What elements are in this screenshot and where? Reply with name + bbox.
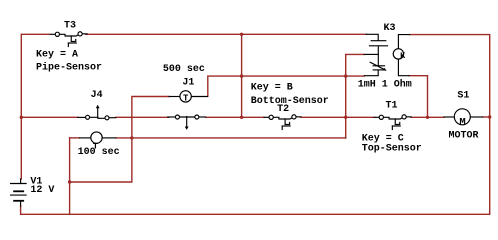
svg-text:Top-Sensor: Top-Sensor xyxy=(362,144,422,155)
svg-text:Key = A: Key = A xyxy=(36,50,78,61)
svg-text:Key = B: Key = B xyxy=(251,82,293,93)
svg-text:T2: T2 xyxy=(277,104,289,115)
svg-text:1mH 1 Ohm: 1mH 1 Ohm xyxy=(358,79,412,91)
svg-text:T: T xyxy=(93,141,98,151)
svg-text:12 V: 12 V xyxy=(30,185,54,196)
svg-text:T3: T3 xyxy=(64,21,76,32)
svg-text:M: M xyxy=(459,116,465,128)
svg-text:MOTOR: MOTOR xyxy=(449,131,479,142)
svg-text:J1: J1 xyxy=(182,78,194,89)
svg-text:T: T xyxy=(183,93,189,103)
svg-text:Pipe-Sensor: Pipe-Sensor xyxy=(36,61,102,73)
svg-text:K: K xyxy=(400,51,406,61)
svg-text:100 sec: 100 sec xyxy=(78,147,120,158)
svg-text:S1: S1 xyxy=(457,91,469,102)
svg-text:Bottom-Sensor: Bottom-Sensor xyxy=(251,96,329,107)
svg-text:T1: T1 xyxy=(386,100,398,111)
svg-text:500 sec: 500 sec xyxy=(163,64,205,75)
svg-text:K3: K3 xyxy=(384,23,396,34)
svg-text:J4: J4 xyxy=(91,90,103,101)
